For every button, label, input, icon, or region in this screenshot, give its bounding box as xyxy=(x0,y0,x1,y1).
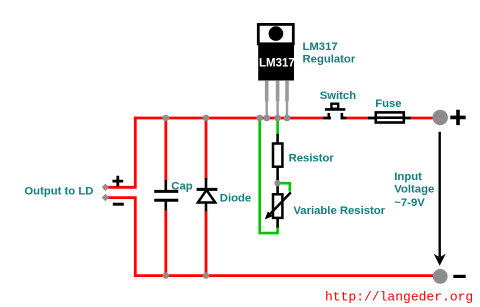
LM317 regulator U1 package xyxy=(258,24,295,80)
diode D1 xyxy=(197,178,218,211)
output plus sign xyxy=(112,176,123,187)
wire diode branch upper xyxy=(205,117,208,180)
wire bottom bus xyxy=(134,274,434,277)
variable resistor VR1 xyxy=(265,185,291,228)
svg-text:Resistor: Resistor xyxy=(289,153,335,165)
node input plus terminal xyxy=(433,110,448,125)
wire top bus left segment xyxy=(134,117,324,120)
svg-text:~7-9V: ~7-9V xyxy=(394,197,425,209)
capacitor C1 xyxy=(154,180,178,210)
wire output plus stub and left riser up to top bus xyxy=(106,117,136,188)
node junction dot pin3 xyxy=(284,115,291,122)
svg-text:Input: Input xyxy=(394,171,422,183)
svg-text:Output to LD: Output to LD xyxy=(24,186,93,198)
node junction dot pin1 xyxy=(263,115,270,122)
resistor R1 xyxy=(273,134,282,182)
label Input Voltage xyxy=(394,171,434,209)
node junction dot green loop xyxy=(256,115,263,122)
node input minus terminal xyxy=(433,269,448,284)
svg-text:Regulator: Regulator xyxy=(303,54,356,66)
node junction dot diode top xyxy=(203,115,210,122)
wire green adjust loop left side xyxy=(260,119,278,233)
node junction dot diode bottom xyxy=(203,272,209,278)
LM317 pin 3 leg xyxy=(285,80,289,118)
wire capacitor branch lower xyxy=(164,210,167,278)
node junction dot pin2 xyxy=(274,115,281,122)
wire top bus fuse to plus terminal xyxy=(410,117,434,120)
svg-text:Diode: Diode xyxy=(220,193,251,205)
output minus sign xyxy=(113,203,124,206)
wire output minus stub and left riser down to bottom bus xyxy=(106,198,136,276)
svg-text:Variable Resistor: Variable Resistor xyxy=(293,205,385,217)
svg-text:Fuse: Fuse xyxy=(375,98,401,110)
wire capacitor branch upper xyxy=(164,117,167,182)
svg-text:Voltage: Voltage xyxy=(394,184,434,196)
node output plus terminal xyxy=(102,184,109,191)
wire diode branch lower xyxy=(205,211,208,278)
LM317 pin 2 leg xyxy=(276,80,280,118)
svg-text:Cap: Cap xyxy=(171,181,192,193)
input plus sign xyxy=(450,110,465,125)
node junction dot cap bottom xyxy=(163,272,169,278)
switch S1 xyxy=(323,104,347,120)
wire top bus between switch and fuse xyxy=(346,117,370,120)
wire green wiper feed xyxy=(280,183,290,191)
svg-text:Switch: Switch xyxy=(320,90,357,102)
input current arrow xyxy=(434,132,446,266)
svg-text:LM317: LM317 xyxy=(303,41,338,53)
fuse F1 xyxy=(368,112,411,122)
wire green pin2 stub xyxy=(276,119,279,135)
svg-text:http://langeder.org: http://langeder.org xyxy=(325,289,473,304)
node junction dot resistor to variable resistor xyxy=(274,180,280,186)
LM317 pin 1 leg xyxy=(265,80,269,118)
node output minus terminal xyxy=(102,194,109,201)
svg-text:LM317: LM317 xyxy=(259,58,295,70)
node junction dot cap top xyxy=(163,115,170,122)
label LM317 Regulator xyxy=(303,41,356,66)
input minus sign xyxy=(453,275,465,278)
